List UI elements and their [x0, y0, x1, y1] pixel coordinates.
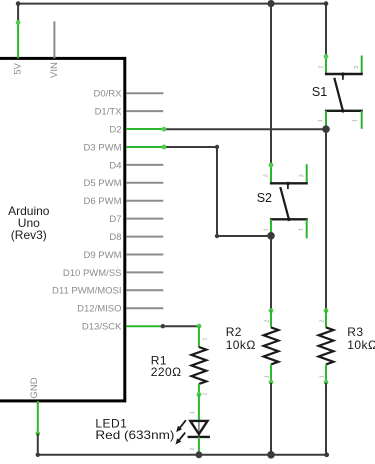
pin D11 PWM/MOSI: [52, 286, 163, 297]
pin D0/RX: [94, 89, 164, 100]
pin VIN: [49, 21, 60, 78]
svg-text:D2: D2: [109, 124, 121, 135]
svg-text:2: 2: [354, 66, 360, 69]
svg-text:D10 PWM/SS: D10 PWM/SS: [63, 268, 122, 279]
node S1-D2-R3 junction: [322, 125, 330, 133]
pin D12/MISO: [77, 304, 163, 315]
wire S2 to R2: [270, 236, 272, 311]
node top-rail junction: [267, 0, 274, 7]
pin D5 PWM: [84, 178, 164, 189]
wire D2 to S1: [162, 127, 326, 132]
svg-text:(Rev3): (Rev3): [11, 228, 47, 242]
pin D9 PWM: [84, 250, 164, 261]
svg-text:2: 2: [265, 320, 271, 323]
svg-text:2: 2: [319, 66, 325, 69]
pin D7: [109, 214, 163, 225]
svg-text:1: 1: [190, 411, 196, 414]
wire rail to S1 top: [325, 4, 327, 57]
svg-text:2: 2: [190, 448, 196, 451]
svg-text:GND: GND: [29, 377, 40, 398]
svg-text:D8: D8: [109, 232, 121, 243]
svg-text:5V: 5V: [13, 62, 24, 74]
svg-text:S2: S2: [257, 191, 272, 205]
wire rail to S2 top: [270, 4, 272, 165]
svg-text:D4: D4: [109, 160, 121, 171]
wire GND to bottom rail: [37, 434, 39, 455]
pin D3 PWM: [84, 142, 164, 153]
wire R2 to bottom rail: [270, 383, 272, 455]
svg-text:1: 1: [353, 119, 359, 122]
wire D3 to S2: [162, 145, 271, 239]
wire 5V rail top horizontal: [16, 1, 329, 6]
pin D1/TX: [95, 107, 164, 118]
svg-text:D0/RX: D0/RX: [94, 89, 123, 100]
pin GND: [29, 377, 40, 436]
pin D4: [109, 160, 163, 171]
svg-text:1: 1: [299, 228, 305, 231]
svg-text:220Ω: 220Ω: [151, 365, 182, 379]
wire D13 to R1: [161, 324, 202, 329]
svg-text:D1/TX: D1/TX: [95, 107, 123, 118]
pin 5V: [13, 20, 24, 75]
node R2 bottom junction: [267, 451, 275, 459]
svg-text:D6 PWM: D6 PWM: [84, 196, 122, 207]
module Arduino Uno (Rev3): [0, 58, 125, 401]
pin D10 PWM/SS: [63, 268, 163, 279]
svg-text:D12/MISO: D12/MISO: [77, 304, 121, 315]
svg-text:1: 1: [318, 119, 324, 122]
wire 5V pin drop: [17, 4, 19, 23]
svg-text:1: 1: [264, 228, 270, 231]
resistor R3: [319, 308, 375, 384]
svg-text:D11 PWM/MOSI: D11 PWM/MOSI: [52, 286, 122, 297]
svg-text:D5 PWM: D5 PWM: [84, 178, 122, 189]
svg-text:1: 1: [203, 338, 209, 341]
svg-text:2: 2: [320, 320, 326, 323]
svg-text:10kΩ: 10kΩ: [347, 338, 375, 352]
pin D13/SCK: [82, 322, 163, 333]
LED LED1: [95, 395, 209, 455]
wire R3 to bottom rail: [325, 383, 327, 455]
node LED1 bottom junction: [196, 451, 203, 458]
switch S1: [312, 54, 363, 129]
pin D2: [109, 124, 163, 135]
svg-text:D3 PWM: D3 PWM: [84, 142, 122, 153]
resistor R1: [151, 326, 209, 397]
svg-text:10kΩ: 10kΩ: [226, 338, 256, 352]
wire S1 to R3: [325, 129, 327, 311]
svg-text:D13/SCK: D13/SCK: [82, 322, 122, 333]
svg-text:2: 2: [203, 393, 209, 396]
svg-text:2: 2: [264, 174, 270, 177]
svg-text:D7: D7: [109, 214, 121, 225]
node S2-D3-R2 junction: [267, 232, 275, 240]
pin D6 PWM: [84, 196, 164, 207]
svg-text:1: 1: [320, 375, 326, 378]
svg-text:Red (633nm): Red (633nm): [95, 428, 174, 442]
svg-text:1: 1: [265, 375, 271, 378]
svg-text:D9 PWM: D9 PWM: [84, 250, 122, 261]
switch S2: [257, 163, 308, 239]
svg-text:S1: S1: [312, 85, 327, 99]
svg-text:VIN: VIN: [49, 62, 60, 78]
wire bottom ground rail: [36, 452, 330, 457]
svg-text:2: 2: [299, 174, 305, 177]
pin D8: [109, 232, 163, 243]
resistor R2: [226, 308, 279, 384]
